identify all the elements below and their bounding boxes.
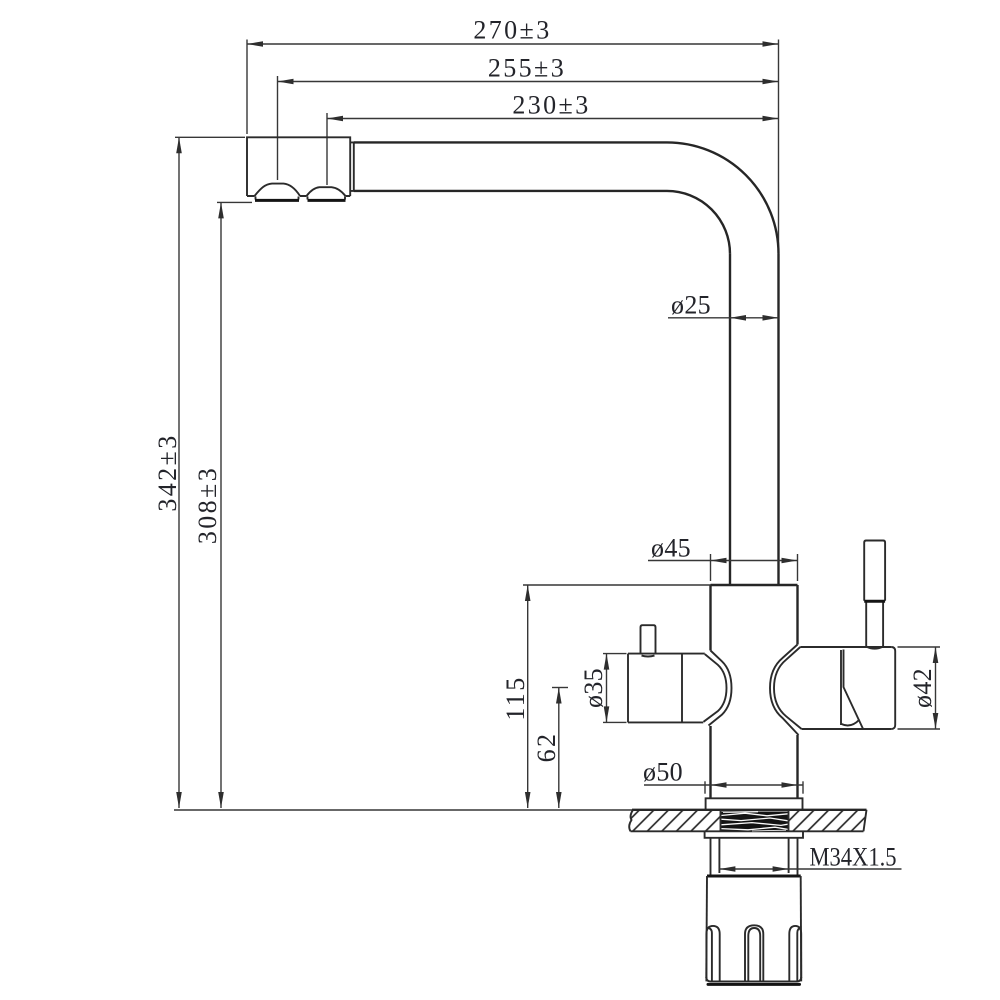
svg-text:ø25: ø25 — [671, 290, 711, 319]
dimension 342±3 left — [153, 137, 245, 808]
spout pipe vertical — [730, 254, 779, 585]
spout head body — [247, 137, 350, 196]
dimension 115 — [501, 585, 711, 808]
svg-text:342±3: 342±3 — [153, 433, 182, 511]
svg-text:ø42: ø42 — [908, 668, 937, 708]
spout head step to pipe — [350, 142, 354, 191]
svg-text:270±3: 270±3 — [473, 16, 551, 45]
svg-text:M34X1.5: M34X1.5 — [810, 843, 897, 872]
dimension 308±3 left — [193, 202, 252, 808]
dimension 62 — [532, 688, 568, 809]
dimension ø35 — [579, 654, 627, 723]
right handle cylinder — [800, 647, 895, 729]
threaded shank in counter hole — [721, 810, 789, 831]
left handle knob — [641, 625, 656, 656]
mounting nut — [706, 876, 801, 984]
svg-text:115: 115 — [501, 675, 530, 720]
svg-text:230±3: 230±3 — [512, 91, 590, 120]
right extension line above spout bend — [778, 40, 780, 255]
svg-text:308±3: 308±3 — [193, 466, 222, 544]
spout pipe horizontal and bend — [354, 142, 779, 254]
nut groove middle — [745, 925, 763, 981]
dimension 230±3 — [327, 91, 779, 186]
faucet body — [711, 585, 798, 798]
collar above nut — [711, 838, 798, 876]
dimension ø45 — [648, 534, 798, 582]
nut groove left — [706, 926, 719, 982]
dimension 270±3 top — [247, 16, 779, 134]
dimension ø25 — [668, 290, 779, 320]
svg-text:ø45: ø45 — [651, 534, 691, 563]
dimension ø42 — [898, 647, 941, 729]
right lever stem — [866, 601, 883, 649]
left port dome — [704, 651, 732, 726]
dimension ø50 — [643, 757, 803, 793]
dimension 255±3 — [278, 53, 779, 180]
threaded shank below washer — [719, 838, 788, 873]
dimension M34X1.5 — [719, 843, 901, 872]
washer under counter — [705, 831, 803, 838]
aerator bump left — [255, 184, 301, 201]
aerator bump right — [307, 187, 346, 200]
svg-text:ø35: ø35 — [579, 668, 608, 708]
nut groove right — [789, 926, 801, 982]
countertop hatched section — [174, 810, 867, 832]
right lever grip — [864, 541, 885, 602]
svg-text:ø50: ø50 — [643, 757, 683, 786]
svg-text:62: 62 — [532, 732, 561, 763]
base flange — [706, 798, 803, 809]
right port dome — [770, 645, 802, 736]
svg-text:255±3: 255±3 — [488, 53, 566, 82]
left handle cylinder — [628, 654, 705, 723]
